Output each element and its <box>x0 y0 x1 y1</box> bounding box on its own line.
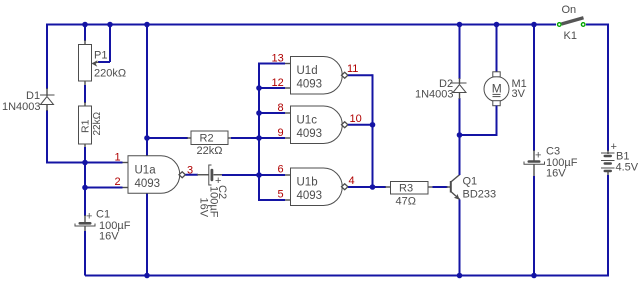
svg-text:BD233: BD233 <box>463 189 497 201</box>
potentiometer P1 <box>79 40 92 87</box>
diode D1 <box>41 88 55 111</box>
svg-text:R2: R2 <box>200 133 214 145</box>
svg-text:4093: 4093 <box>135 178 161 190</box>
svg-text:U1c: U1c <box>297 115 318 127</box>
wire pin5 row <box>258 199 285 201</box>
pin 5 stub <box>285 199 291 201</box>
pin 9 stub <box>285 137 291 139</box>
svg-text:C1: C1 <box>96 209 110 221</box>
pin 12 stub <box>285 87 291 89</box>
wire M1 bottom <box>460 106 497 136</box>
svg-text:1N4003: 1N4003 <box>2 101 41 113</box>
svg-text:9: 9 <box>278 127 284 139</box>
node top rail junction U1 power <box>144 22 150 28</box>
svg-text:10: 10 <box>350 113 362 125</box>
wire U1b output to R3 <box>348 186 386 188</box>
pin 6 stub <box>285 174 291 176</box>
wire node1 row <box>46 162 123 164</box>
wire R2 row <box>147 137 188 139</box>
svg-text:R1: R1 <box>80 119 92 133</box>
wire left branch to D1 <box>46 24 48 163</box>
svg-text:U1d: U1d <box>297 65 318 77</box>
svg-text:1N4003: 1N4003 <box>415 89 454 101</box>
wire bottom rail <box>85 275 608 277</box>
wire node1 to node2 <box>84 163 86 188</box>
svg-text:1: 1 <box>115 152 121 164</box>
pin 8 stub <box>285 112 291 114</box>
wire node2 to C1 <box>84 188 86 217</box>
svg-text:4093: 4093 <box>297 190 323 202</box>
svg-text:12: 12 <box>272 77 284 89</box>
wire Q1 emitter to bottom rail <box>459 200 461 276</box>
wire pin8 row <box>259 112 285 114</box>
diode D2 <box>453 78 467 99</box>
lead dash D1 <box>40 94 47 96</box>
op-amp U1b nand gate <box>291 168 348 206</box>
capacitor C3 <box>524 150 545 177</box>
svg-text:16V: 16V <box>546 168 566 180</box>
wire pin9 row <box>259 137 285 139</box>
svg-text:U1b: U1b <box>297 177 318 189</box>
node R2 pin9 junction <box>256 135 262 141</box>
svg-text:4093: 4093 <box>297 128 323 140</box>
svg-text:+: + <box>86 211 92 223</box>
node top rail junction P1 <box>82 22 88 28</box>
svg-text:5: 5 <box>278 189 284 201</box>
node top rail junction wiper <box>107 22 113 28</box>
capacitor C1 <box>75 215 95 232</box>
node C3 bottom junction <box>531 273 537 279</box>
node top rail junction C3 <box>531 22 537 28</box>
wire U1a output <box>186 174 199 176</box>
node top rail junction D2 <box>457 22 463 28</box>
svg-text:+: + <box>535 150 541 162</box>
pin 1 stub <box>123 162 129 164</box>
svg-text:M: M <box>492 81 502 95</box>
wire R2 to input node <box>231 137 285 139</box>
resistor R3 <box>385 182 434 195</box>
node R2 left junction <box>144 135 150 141</box>
node pin2 junction <box>82 185 88 191</box>
node R1 bottom junction <box>82 160 88 166</box>
svg-text:4.5V: 4.5V <box>616 162 639 174</box>
wire U1 power top <box>146 24 148 157</box>
node pin10 junction <box>370 122 376 128</box>
op-amp U1c nand gate <box>291 106 348 144</box>
svg-text:P1: P1 <box>94 50 107 62</box>
transistor Q1 <box>447 175 460 200</box>
pin 2 stub <box>123 187 129 189</box>
svg-text:22kΩ: 22kΩ <box>197 145 223 157</box>
wire input bus vertical <box>258 64 260 201</box>
svg-text:On: On <box>562 4 577 16</box>
wire P1 to R1 <box>84 85 86 103</box>
wire output bus vertical <box>372 74 374 187</box>
svg-text:11: 11 <box>347 63 358 75</box>
wire top rail left <box>47 24 556 26</box>
wire P1 wiper <box>98 24 110 63</box>
wire R1 to node1 <box>84 147 86 163</box>
wire pin12 row <box>259 87 285 89</box>
svg-text:U1a: U1a <box>135 164 157 176</box>
wire U1c output <box>348 124 373 126</box>
svg-text:22kΩ: 22kΩ <box>92 111 103 135</box>
wire right branch top <box>607 24 609 152</box>
wire C3 branch top <box>533 24 535 152</box>
switch K1 <box>558 18 586 27</box>
svg-text:13: 13 <box>272 53 284 65</box>
wire top rail right <box>586 24 608 26</box>
battery B1 <box>601 150 615 176</box>
node pin8 junction <box>256 110 262 116</box>
svg-text:220kΩ: 220kΩ <box>94 68 126 80</box>
wire C3 to bottom rail <box>533 176 535 276</box>
motor M1 <box>484 72 509 106</box>
svg-text:47Ω: 47Ω <box>396 196 416 208</box>
wire M1 branch top <box>496 24 498 73</box>
svg-text:8: 8 <box>278 102 284 114</box>
svg-text:16V: 16V <box>99 231 119 243</box>
node top rail junction M1 <box>494 22 500 28</box>
svg-text:4093: 4093 <box>297 79 323 91</box>
svg-text:2: 2 <box>115 176 121 188</box>
wire pin2 row <box>85 187 123 189</box>
svg-text:Q1: Q1 <box>463 176 478 188</box>
svg-text:16V: 16V <box>198 198 210 218</box>
wire C2 to input node <box>222 174 285 176</box>
wire right branch bottom <box>607 175 609 277</box>
wire U1 power bottom <box>146 194 148 276</box>
node D2 Q1 M1 junction <box>457 132 463 138</box>
svg-text:C3: C3 <box>546 146 560 158</box>
op-amp U1a nand gate <box>128 156 185 194</box>
op-amp U1d nand gate <box>291 57 348 95</box>
node pin12 junction <box>256 85 262 91</box>
pin 13 stub <box>285 63 291 65</box>
wire pin13 row <box>258 63 285 65</box>
node pin6 junction <box>256 172 262 178</box>
wire Q1 collector <box>459 135 461 175</box>
lead dash D2 <box>450 82 459 84</box>
wire P1 branch top <box>84 24 86 42</box>
P1 wiper arrow <box>92 60 99 66</box>
wire R3 to Q1 base <box>433 186 448 188</box>
wire D2 branch <box>459 24 461 136</box>
svg-text:3V: 3V <box>512 88 526 100</box>
wire U1d output <box>348 74 373 76</box>
resistor R1 <box>79 102 92 149</box>
node emitter bottom junction <box>457 273 463 279</box>
svg-text:R3: R3 <box>399 183 413 195</box>
node bottom rail junction U1 power <box>144 273 150 279</box>
wire C1 to bottom rail <box>84 231 86 276</box>
svg-text:6: 6 <box>278 164 284 176</box>
resistor R2 <box>187 131 232 145</box>
capacitor C2 <box>197 165 223 185</box>
svg-text:K1: K1 <box>564 30 577 42</box>
svg-text:4: 4 <box>349 175 355 187</box>
node pin4 junction <box>370 184 376 190</box>
